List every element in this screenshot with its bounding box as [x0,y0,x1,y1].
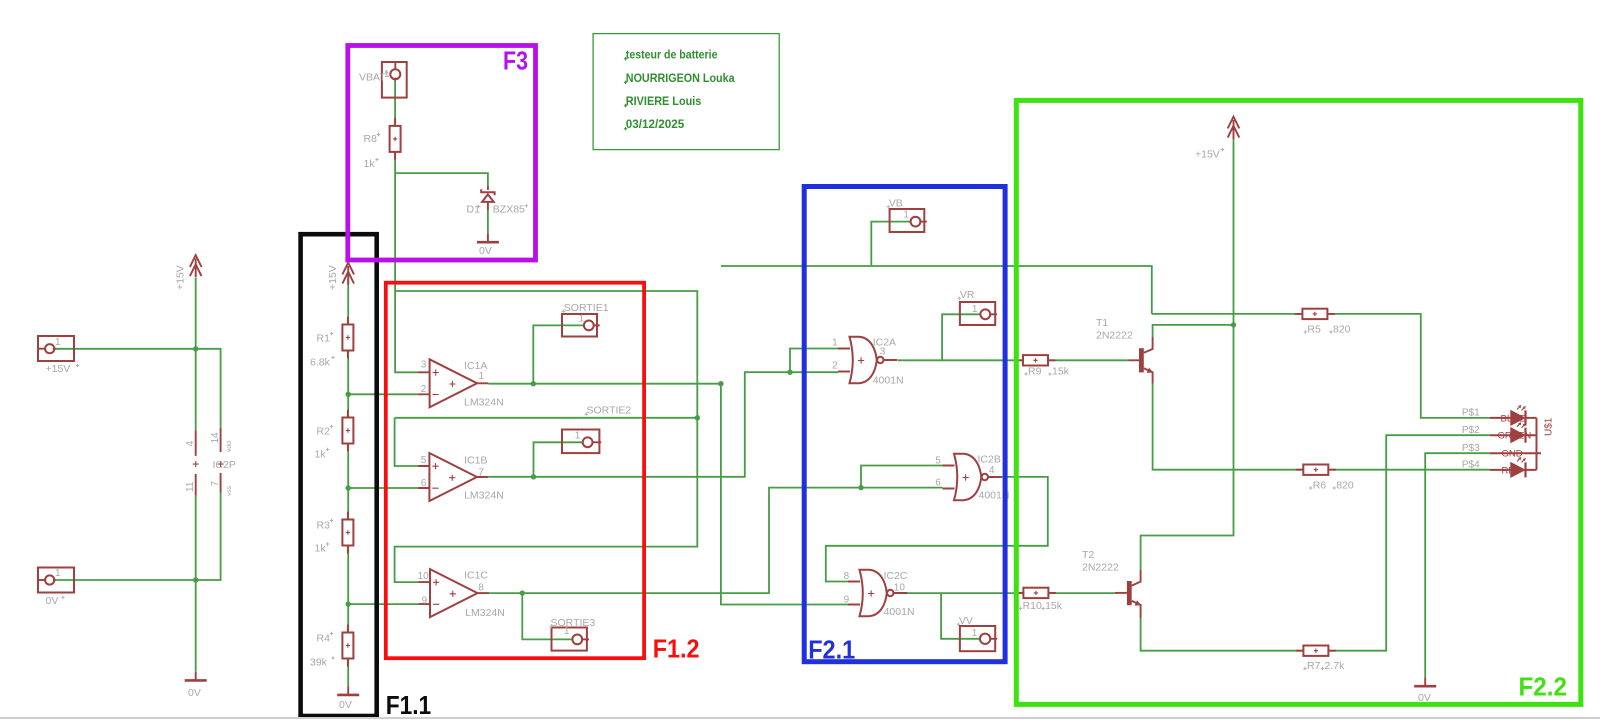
svg-text:R8: R8 [364,133,378,145]
svg-text:F2.2: F2.2 [1519,672,1567,702]
svg-text:RIVIERE Louis: RIVIERE Louis [626,94,702,108]
svg-text:F1.1: F1.1 [386,690,432,720]
wire: divider tap to IC1C pin9 [348,603,418,605]
connector V/V [957,615,998,651]
wire: VBAT net to comparator + inputs (top run) [395,291,698,582]
wire: IC2A output to R9 and T1 base [898,359,1128,361]
svg-text:1: 1 [479,371,485,382]
frame F1.1 (black) [301,234,377,716]
svg-text:R2: R2 [317,426,331,438]
wire: V/B riser [871,222,910,266]
LED array U$1 pin names [1498,413,1532,476]
wire: SORTIE2-labelled net segment [395,417,698,419]
ground 0V (left) [185,672,207,699]
svg-text:2: 2 [421,384,427,395]
wire: IC2P VSS right column to 0V node [196,493,221,580]
svg-text:7: 7 [210,481,221,487]
svg-text:R4: R4 [317,633,331,645]
resistor R2 1k [315,410,354,461]
svg-text:LM324N: LM324N [465,607,505,619]
junction: IC1A output / SORTIE1 tap [531,381,536,386]
svg-text:10: 10 [418,571,430,582]
wire: IC2C output to R10 and T2 base [905,592,1115,594]
wire: left +15V rail vertical [195,278,197,430]
connector SORTIE1 [562,302,609,337]
svg-text:820: 820 [1336,480,1354,492]
svg-text:820: 820 [1333,324,1351,336]
svg-text:14: 14 [210,432,221,444]
svg-text:4001N: 4001N [873,375,904,387]
svg-text:0V: 0V [479,245,492,257]
svg-text:1k: 1k [364,158,376,170]
svg-text:0V: 0V [188,687,201,699]
svg-text:1: 1 [832,337,838,348]
wire: +15V connector to rail and VDD branch [54,349,220,428]
LED P$4 [1511,457,1526,477]
wire: T1 emitter to R6 row to P$4 [1153,384,1490,470]
svg-text:4: 4 [989,465,995,476]
junction: IC2A tied-input node [787,370,792,375]
svg-text:+15V: +15V [175,265,187,290]
svg-text:6.8k: 6.8k [310,357,331,369]
svg-text:15k: 15k [1045,600,1063,612]
junction: divider R1-R2 node [346,392,351,397]
svg-text:testeur de batterie: testeur de batterie [626,47,718,61]
svg-text:03/12/2025: 03/12/2025 [626,117,685,131]
wire: branch to zener D1 [395,173,488,234]
frame F3 (purple) [348,46,536,261]
wire: IC1A-output net riser to IC2C pin9 [721,384,848,605]
title block [593,34,779,150]
svg-text:F1.2: F1.2 [653,634,700,664]
resistor R6 820 [1296,465,1354,492]
wire: T1 collector to +15V rail [1153,325,1234,337]
svg-text:P$4: P$4 [1462,460,1480,471]
wire: P$3 GND to 0V [1425,453,1490,677]
svg-text:R3: R3 [317,520,331,532]
svg-text:IC2C: IC2C [884,570,908,582]
svg-text:R10: R10 [1023,600,1042,612]
svg-text:LM324N: LM324N [464,490,504,502]
svg-text:P$2: P$2 [1462,425,1480,436]
svg-text:R9: R9 [1028,366,1042,378]
wire: 0V connector to rail [54,579,195,581]
zener diode D1 BZX85 [467,186,529,216]
NOR gate IC2C 4001N [844,570,915,618]
svg-text:VB: VB [889,197,903,209]
wire: top net IC1A-out to F2.2 [721,266,1152,314]
svg-text:1k: 1k [315,543,327,555]
junction: VBAT sense net node [695,415,700,420]
svg-text:4001N: 4001N [884,606,915,618]
junction: divider R2-R3 node [346,485,351,490]
svg-text:+15V: +15V [46,363,71,375]
svg-text:4: 4 [185,441,196,447]
resistor R7 2.7k [1296,646,1345,673]
LED array U$1 pins and bus [1490,418,1541,470]
resistor R5 820 [1295,309,1351,336]
svg-text:P$1: P$1 [1462,408,1480,419]
LED P$1 [1511,405,1526,425]
svg-text:6: 6 [421,478,427,489]
svg-text:IC1A: IC1A [464,360,487,372]
wire: VBAT net vertical to IC1A pin3 [395,79,418,372]
wire: V/R riser [942,314,980,360]
junction: +15V rail / T1 collector [1231,322,1236,327]
svg-text:VBAT: VBAT [359,72,386,84]
transistor T2 2N2222 [1082,549,1141,618]
connector V/R [958,289,997,325]
wire: IC2B pin5 tie riser [861,466,943,488]
wire: riser to IC1B pin5 [395,418,418,466]
IC2P power pins [185,428,236,496]
svg-text:R5: R5 [1307,324,1321,336]
resistor R3 1k [315,512,354,555]
svg-text:2N2222: 2N2222 [1096,330,1133,342]
svg-text:2N2222: 2N2222 [1082,562,1119,574]
svg-text:IC2B: IC2B [978,453,1001,465]
wire: divider tap to IC1B pin6 [348,487,418,489]
wire: V/V riser [941,593,980,639]
wire: T2 emitter to R7 row to P$2 [1141,435,1490,651]
svg-text:SORTIE3: SORTIE3 [551,617,596,629]
svg-text:1: 1 [972,304,978,315]
svg-text:VV: VV [959,615,973,627]
svg-text:1: 1 [578,314,584,325]
svg-text:5: 5 [421,455,427,466]
svg-text:5: 5 [935,456,941,467]
resistor R10 15k [1016,588,1063,612]
svg-text:1: 1 [55,568,61,579]
svg-text:SORTIE2: SORTIE2 [587,405,632,417]
ground 0V (F3) [477,234,499,257]
svg-text:NOURRIGEON Louka: NOURRIGEON Louka [626,71,735,85]
frame F1.2 (red) [386,283,644,659]
svg-text:2.7k: 2.7k [1325,660,1346,672]
wire: IC1B output to IC2A input [488,372,790,477]
junction: IC2B tied-input node [858,485,863,490]
connector V/B [887,197,927,232]
svg-text:8: 8 [844,571,850,582]
svg-text:9: 9 [844,594,850,605]
svg-text:T1: T1 [1096,317,1108,329]
junction: 0V rail / connector tap [193,577,198,582]
svg-text:39k: 39k [310,657,328,669]
svg-text:IC2P: IC2P [213,459,236,471]
svg-text:1k: 1k [315,449,327,461]
svg-text:0V: 0V [339,699,352,711]
wire: IC2A tied inputs [790,349,838,373]
junction: IC1A output riser node [718,381,723,386]
LED P$2 [1511,423,1526,443]
wire: F2.2 +15V rail down to T2 collector [1141,139,1234,570]
wire: SORTIE1 riser [533,325,584,383]
svg-text:11: 11 [185,481,196,492]
svg-text:SORTIE1: SORTIE1 [564,302,609,314]
svg-text:BZX85: BZX85 [493,204,525,216]
svg-text:+15V: +15V [1195,149,1220,161]
frame F2.1 (blue) [804,187,1005,662]
wire: SORTIE2 connector riser [534,442,583,477]
resistor R8 1k [364,118,401,170]
U$1 labels [1462,408,1555,471]
svg-text:vss: vss [226,485,233,496]
svg-text:IC1C: IC1C [464,570,488,582]
svg-text:U$1: U$1 [1544,417,1555,436]
transistor T1 2N2222 [1096,317,1153,384]
junction: +15V rail / connector tap [193,346,198,351]
wire: IC1C output to IC2B input [488,488,942,593]
wire: F1.1 divider vertical [347,278,349,687]
junction: IC1B output / SORTIE2 tap [531,474,536,479]
svg-text:IC1B: IC1B [464,454,487,466]
svg-text:1: 1 [575,430,581,441]
connector VBAT [359,62,407,98]
connector SORTIE3 [550,617,596,651]
svg-text:2: 2 [832,360,838,371]
resistor R1 6.8k [310,317,353,369]
svg-text:+15V: +15V [327,265,339,290]
resistor R9 15k [1016,355,1070,377]
svg-text:vdd: vdd [226,441,233,452]
frame F2.2 (bright green) [1016,100,1581,704]
power symbol +15V (F1.1) [327,263,354,290]
svg-text:LM324N: LM324N [464,396,504,408]
wire: IC1A output [488,383,721,385]
svg-text:1: 1 [55,337,61,348]
svg-text:R1: R1 [317,333,331,345]
op-amp IC1B LM324N [418,453,504,502]
svg-text:7: 7 [478,468,484,479]
svg-text:P$3: P$3 [1462,443,1480,454]
svg-text:15k: 15k [1052,366,1070,378]
wire: IC2B output loop to IC2C pin8 [826,477,1048,582]
resistor R4 39k [310,625,353,669]
wire: R5 row to P$1 [1152,314,1490,418]
power symbol +15V (F2.2) [1195,117,1239,161]
svg-text:IC2A: IC2A [873,336,896,348]
svg-text:0V: 0V [46,595,59,607]
svg-text:8: 8 [478,583,484,594]
svg-text:R7: R7 [1307,660,1321,672]
svg-text:T2: T2 [1082,549,1094,561]
svg-text:F3: F3 [503,46,528,76]
svg-text:F2.1: F2.1 [808,635,855,665]
connector SORTIE2 [562,405,631,454]
junction: divider R3-R4 node [346,601,351,606]
connector X+15V [38,336,79,375]
op-amp IC1C LM324N [418,569,505,619]
NOR gate IC2B 4001N [935,453,1009,501]
power symbol +15V (left) [175,255,202,290]
wire: left VSS rail lower [195,496,197,672]
svg-text:VR: VR [960,289,975,301]
NOR gate IC2A 4001N [832,336,904,386]
svg-text:10: 10 [894,583,906,594]
connector X0V [38,568,74,608]
bottom window edge line [0,717,1600,719]
svg-text:1: 1 [903,210,909,221]
svg-text:1: 1 [972,628,978,639]
junction: IC1C output / SORTIE3 tap [520,590,525,595]
ground 0V (F1.1) [337,686,359,710]
op-amp IC1A LM324N [418,359,504,408]
svg-text:3: 3 [421,360,427,371]
svg-text:6: 6 [935,478,941,489]
wire: divider tap to IC1A pin2 [348,393,418,395]
svg-text:R6: R6 [1313,480,1327,492]
ground 0V (F2.2) [1414,678,1436,704]
wire: SORTIE3 riser [522,593,572,639]
svg-text:9: 9 [422,595,428,606]
